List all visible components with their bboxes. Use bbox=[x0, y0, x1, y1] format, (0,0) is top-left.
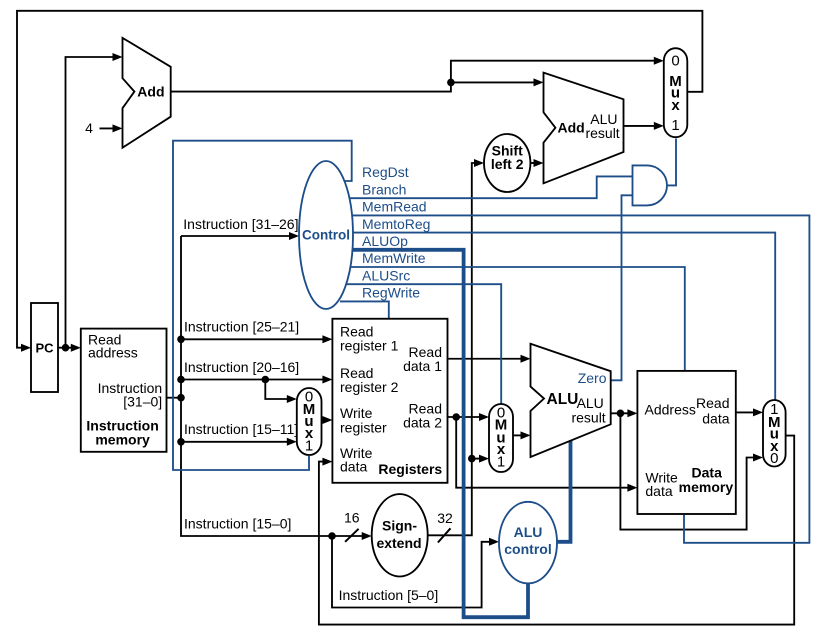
svg-text:Instruction [31–26]: Instruction [31–26] bbox=[183, 216, 298, 232]
wire RegDst mux output to Write register bbox=[322, 416, 333, 424]
svg-text:MemRead: MemRead bbox=[362, 199, 427, 215]
register PC bbox=[31, 303, 58, 392]
svg-text:Instruction [20–16]: Instruction [20–16] bbox=[184, 359, 299, 375]
svg-text:RegDst: RegDst bbox=[362, 164, 409, 180]
net label Instruction [15-11] bbox=[184, 421, 298, 437]
svg-text:[31–0]: [31–0] bbox=[123, 393, 162, 409]
svg-text:ALU: ALU bbox=[547, 391, 579, 408]
control unit Control bbox=[299, 161, 353, 309]
wire instruction bus vertical with Instruction [15-0] to sign-extend bbox=[181, 236, 372, 540]
svg-text:register 1: register 1 bbox=[340, 338, 399, 354]
wire PCSrc mux output loop to PC input (top/left border) bbox=[17, 11, 702, 352]
node ALU result junction bbox=[617, 410, 625, 418]
adder Add ALU branch target bbox=[544, 73, 624, 184]
node instruction bus junctions bbox=[177, 336, 185, 446]
svg-text:memory: memory bbox=[95, 431, 150, 447]
node Read data 2 junction bbox=[452, 413, 460, 421]
svg-text:data: data bbox=[702, 410, 729, 426]
wire PC output to instruction memory with branch up to Add bbox=[58, 53, 123, 352]
wire MemWrite control to Data memory write port bbox=[340, 267, 685, 372]
svg-text:Write: Write bbox=[340, 405, 373, 421]
wire MemRead control to Data memory read port bbox=[340, 215, 809, 542]
svg-text:Zero: Zero bbox=[578, 370, 607, 386]
sign extender Sign-extend bbox=[372, 494, 428, 576]
node Instruction [20-16] junction bbox=[262, 376, 270, 384]
svg-text:Read: Read bbox=[696, 395, 729, 411]
mux ALUSrc bbox=[489, 404, 513, 472]
wire ALU control output to ALU select bbox=[545, 441, 571, 542]
wire ALUOp control to ALU control unit (2-bit) bbox=[340, 250, 528, 617]
svg-text:data: data bbox=[645, 483, 672, 499]
svg-text:32: 32 bbox=[437, 510, 453, 526]
wire Instruction [5-0] to ALU control bbox=[332, 536, 499, 608]
net label Instruction [5-0] bbox=[339, 587, 439, 603]
svg-text:control: control bbox=[504, 541, 551, 557]
wire AND gate output to PCSrc mux select bbox=[667, 139, 676, 186]
wire RegDst control to RegDst mux select bbox=[173, 141, 352, 470]
svg-text:Sign-: Sign- bbox=[382, 517, 417, 533]
svg-text:left 2: left 2 bbox=[491, 156, 524, 172]
wire Instruction [25-21] to Read register 1 bbox=[181, 335, 332, 343]
svg-text:Instruction [25–21]: Instruction [25–21] bbox=[184, 319, 299, 335]
bus width label 16 with slash bbox=[344, 510, 360, 542]
svg-text:Instruction [5–0]: Instruction [5–0] bbox=[339, 587, 439, 603]
wire constant 4 into Add bbox=[100, 124, 123, 132]
bus width label 32 with slash bbox=[437, 510, 453, 543]
svg-text:result: result bbox=[571, 410, 605, 426]
svg-text:0: 0 bbox=[671, 53, 679, 70]
svg-text:1: 1 bbox=[305, 438, 313, 455]
svg-text:Instruction [15–0]: Instruction [15–0] bbox=[184, 515, 291, 531]
gate AND branch bbox=[633, 165, 668, 205]
shifter Shift left 2 bbox=[484, 134, 530, 192]
wire Add output (PC+4) to PCSrc mux input 0 bbox=[171, 57, 664, 92]
value label 4 bbox=[85, 120, 93, 136]
wire PC+4 branch to Add ALU top input bbox=[451, 78, 544, 86]
svg-text:Add: Add bbox=[137, 83, 164, 99]
svg-text:Control: Control bbox=[302, 228, 350, 243]
svg-text:register 2: register 2 bbox=[340, 379, 399, 395]
svg-text:PC: PC bbox=[35, 340, 54, 355]
mux MemtoReg (right) bbox=[763, 400, 786, 467]
wire RegWrite control to Registers write enable bbox=[340, 301, 389, 319]
svg-text:Address: Address bbox=[645, 401, 696, 417]
net label Instruction [15-0] bbox=[184, 515, 291, 531]
svg-text:4: 4 bbox=[85, 120, 93, 136]
wire Branch control to AND gate input bbox=[340, 176, 633, 198]
wire Instruction [15-11] to RegDst mux input 1 bbox=[181, 438, 297, 446]
net label Instruction [25-21] bbox=[184, 319, 299, 335]
control unit ALU control bbox=[499, 502, 557, 584]
wire MemtoReg control to MemtoReg mux select bbox=[340, 233, 775, 401]
wire shift-left-2 output to Add ALU bottom input bbox=[530, 159, 543, 167]
wire sign-extend output to ALUSrc mux input 1 and shift-left-2 bbox=[428, 159, 489, 535]
wire Instruction [20-16] to Read register 2 and RegDst mux input 0 bbox=[181, 376, 332, 404]
wire ALU Zero output to AND gate input bbox=[608, 195, 633, 380]
svg-text:RegWrite: RegWrite bbox=[362, 285, 420, 301]
wire Instruction [31-26] to Control bbox=[181, 232, 299, 240]
wire MemtoReg mux output wrap-around to Registers write data bbox=[319, 436, 794, 625]
register file Registers bbox=[332, 319, 447, 483]
svg-text:Branch: Branch bbox=[362, 181, 406, 197]
control signal labels RegDst..RegWrite bbox=[362, 164, 430, 300]
net label Instruction [31-26] bbox=[183, 216, 298, 232]
svg-text:ALUOp: ALUOp bbox=[362, 233, 408, 249]
svg-text:MemWrite: MemWrite bbox=[362, 250, 426, 266]
pin label Zero bbox=[578, 370, 607, 386]
svg-text:1: 1 bbox=[497, 454, 505, 471]
svg-text:Instruction [15–11]: Instruction [15–11] bbox=[184, 421, 298, 437]
svg-text:address: address bbox=[88, 345, 138, 361]
node Instruction [15-0] junction bbox=[328, 532, 336, 540]
svg-text:register: register bbox=[340, 420, 387, 436]
svg-text:data 2: data 2 bbox=[403, 415, 442, 431]
wire ALU result to Data memory address and MemtoReg mux input 0 bypass bbox=[611, 409, 763, 529]
svg-text:data 1: data 1 bbox=[403, 358, 442, 374]
net label Instruction [20-16] bbox=[184, 359, 299, 375]
mux PCSrc (top right) bbox=[664, 48, 688, 137]
alu main ALU bbox=[531, 344, 611, 457]
wire Add ALU result to PCSrc mux input 1 bbox=[624, 122, 664, 130]
node PC output junction bbox=[62, 344, 70, 352]
wire Read data 2 to ALUSrc mux input 0 and Data memory write data bbox=[448, 413, 638, 492]
adder Add (PC+4) bbox=[123, 38, 171, 148]
svg-text:0: 0 bbox=[770, 450, 778, 467]
svg-text:result: result bbox=[585, 125, 619, 141]
wire Data memory read data to MemtoReg mux input 1 bbox=[736, 408, 763, 416]
node PC+4 junction bbox=[447, 79, 455, 87]
svg-text:Data: Data bbox=[692, 464, 723, 480]
mux RegDst (write register) bbox=[297, 388, 322, 455]
wire ALUSrc control to ALUSrc mux select bbox=[340, 284, 501, 405]
svg-text:16: 16 bbox=[344, 510, 360, 526]
svg-text:x: x bbox=[671, 97, 680, 114]
svg-text:MemtoReg: MemtoReg bbox=[362, 216, 430, 232]
svg-text:memory: memory bbox=[679, 479, 734, 495]
svg-text:ALUSrc: ALUSrc bbox=[362, 267, 410, 283]
svg-text:extend: extend bbox=[376, 535, 421, 551]
wire instruction memory output to instruction bus bbox=[167, 397, 182, 399]
svg-text:Add: Add bbox=[558, 120, 585, 136]
svg-text:data: data bbox=[340, 458, 367, 474]
wire Read data 1 to ALU input bbox=[448, 355, 531, 363]
svg-text:Registers: Registers bbox=[378, 461, 442, 477]
memory block Instruction memory bbox=[81, 329, 167, 452]
memory block Data memory bbox=[637, 371, 735, 514]
wire ALUSrc mux output to ALU input bbox=[513, 431, 531, 439]
svg-text:1: 1 bbox=[671, 117, 679, 134]
svg-text:ALU: ALU bbox=[514, 524, 543, 540]
node sign-extend output junction bbox=[468, 455, 476, 463]
